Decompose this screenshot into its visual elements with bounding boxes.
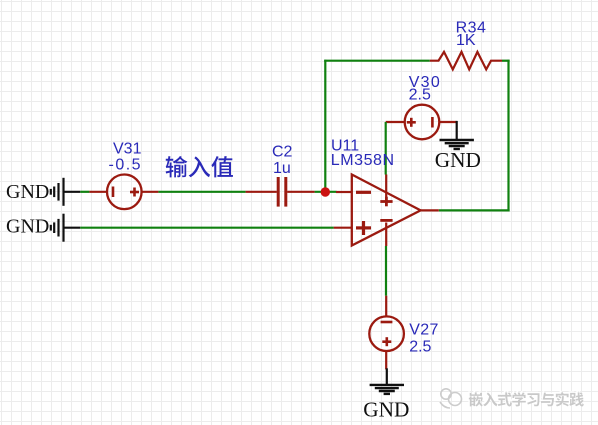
capacitor C2 1u: [246, 177, 315, 207]
svg-text:-0.5: -0.5: [109, 157, 143, 174]
watermark logo: [440, 389, 462, 408]
op-amp U1 U11 LM358N: [334, 175, 439, 247]
wire V30 to op-amp V+ (green): [385, 122, 387, 175]
wire V31 to C2 (green): [158, 191, 245, 193]
svg-text:LM358N: LM358N: [331, 152, 395, 169]
voltage source V31 -0.5: [89, 175, 158, 210]
svg-text:1K: 1K: [456, 32, 476, 49]
watermark text 嵌入式学习与实践: [467, 391, 583, 407]
label 输入值 (input value): [166, 156, 233, 177]
svg-text:1u: 1u: [273, 160, 291, 177]
wire feedback top (green): [324, 60, 430, 62]
voltage source V30 2.5: [386, 105, 457, 140]
wire GND2 to op-amp + (green): [80, 227, 333, 229]
wire green stub: [80, 191, 89, 193]
svg-text:2.5: 2.5: [409, 87, 431, 104]
wire junction up to feedback (green): [324, 60, 326, 192]
svg-text:2.5: 2.5: [409, 339, 431, 356]
wire output to right rail (green): [439, 209, 510, 211]
wire V30 to ground (black): [456, 121, 458, 140]
ground GND at V27: [363, 385, 409, 422]
wire R34 to right rail (green): [502, 60, 510, 62]
svg-text:GND: GND: [363, 397, 409, 421]
svg-text:C2: C2: [272, 143, 293, 160]
wire C2 to junction (green): [315, 191, 337, 193]
wire GND2 black stub: [64, 227, 81, 229]
node junction dot: [321, 187, 330, 196]
wire V27 to ground (black): [386, 368, 388, 385]
svg-text:GND: GND: [6, 216, 49, 238]
ground GND at V30: [435, 140, 481, 172]
resistor R34 1K: [430, 52, 502, 70]
ground GND2 (non-inverting input net): [6, 214, 64, 242]
voltage source V27 2.5: [369, 296, 404, 370]
wire op-amp V- down (green): [385, 246, 387, 296]
svg-text:GND: GND: [435, 148, 481, 172]
svg-text:V27: V27: [409, 321, 439, 338]
svg-text:GND: GND: [6, 181, 49, 203]
svg-text:V31: V31: [113, 140, 142, 157]
wire GND1 to V31 (black): [64, 191, 81, 193]
wire right rail vertical (green): [507, 60, 509, 212]
ground GND1 (inverting input net): [6, 178, 64, 206]
